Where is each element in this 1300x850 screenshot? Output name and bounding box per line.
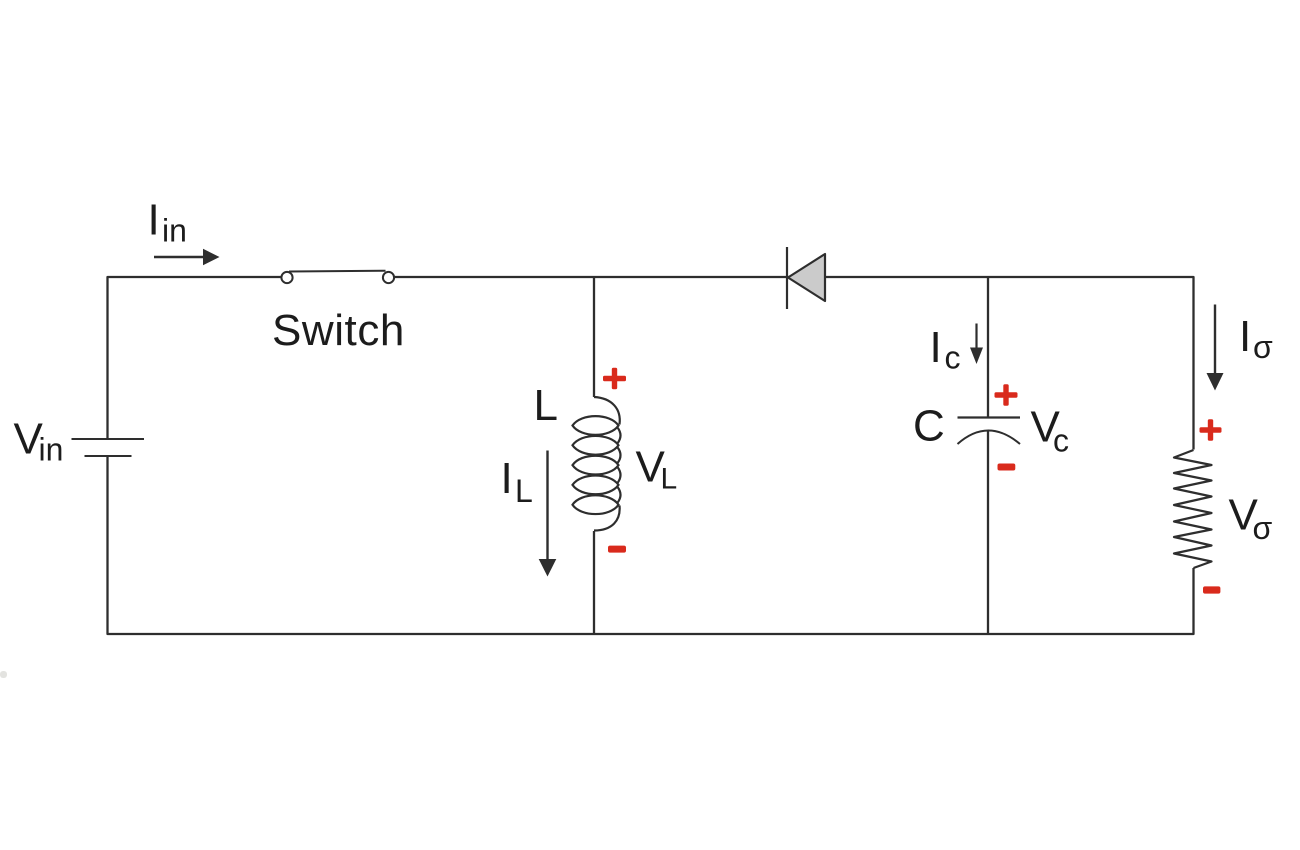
battery V_in long plate: [72, 438, 145, 440]
svg-text:I: I: [148, 196, 160, 245]
svg-text:in: in: [39, 432, 64, 468]
svg-text:σ: σ: [1253, 329, 1273, 365]
svg-text:L: L: [534, 381, 558, 430]
wire: left branch (battery top to top rail start): [108, 277, 282, 439]
svg-text:L: L: [515, 473, 533, 509]
wire: inductor branch top: [593, 277, 595, 397]
svg-text:I: I: [1239, 312, 1251, 361]
svg-text:c: c: [1053, 423, 1069, 459]
switch contact circle right: [383, 272, 394, 283]
wire: top rail from switch to top-right corner, right riser upper: [395, 277, 1194, 450]
arrow Iin: [154, 249, 220, 265]
svg-text:σ: σ: [1253, 510, 1273, 546]
switch contact circle left: [281, 272, 292, 283]
wire: inductor branch bottom: [593, 531, 595, 634]
svg-text:I: I: [501, 454, 513, 503]
arrow Isigma: [1207, 305, 1224, 391]
arrow Ic: [970, 324, 983, 365]
diode (pointing left, gray fill): [787, 247, 825, 309]
battery V_in short plate: [85, 455, 132, 457]
svg-text:L: L: [661, 463, 678, 496]
arrow IL: [539, 451, 557, 577]
plus mark at resistor (red): [1200, 419, 1222, 441]
svg-text:c: c: [945, 340, 961, 376]
wire: capacitor branch top: [987, 277, 989, 418]
resistor zigzag: [1174, 450, 1212, 568]
svg-text:Switch: Switch: [272, 306, 405, 355]
inductor L coil: [573, 397, 621, 531]
wire: battery bottom, bottom rail, right riser lower: [108, 456, 1194, 634]
minus mark at capacitor (red): [998, 464, 1016, 471]
plus mark at inductor top (red): [603, 368, 626, 390]
capacitor C flat plate: [958, 416, 1021, 418]
switch lever: [289, 270, 386, 273]
plus mark at capacitor (red): [995, 384, 1018, 406]
capacitor C curved plate: [958, 431, 1021, 445]
wire: capacitor branch bottom: [987, 430, 989, 634]
svg-text:I: I: [930, 323, 942, 372]
svg-text:in: in: [162, 213, 187, 249]
minus mark at inductor bottom (red): [608, 546, 626, 553]
svg-text:C: C: [913, 402, 945, 451]
stray faint mark bottom-left: [0, 671, 7, 678]
minus mark at resistor (red): [1203, 586, 1220, 593]
